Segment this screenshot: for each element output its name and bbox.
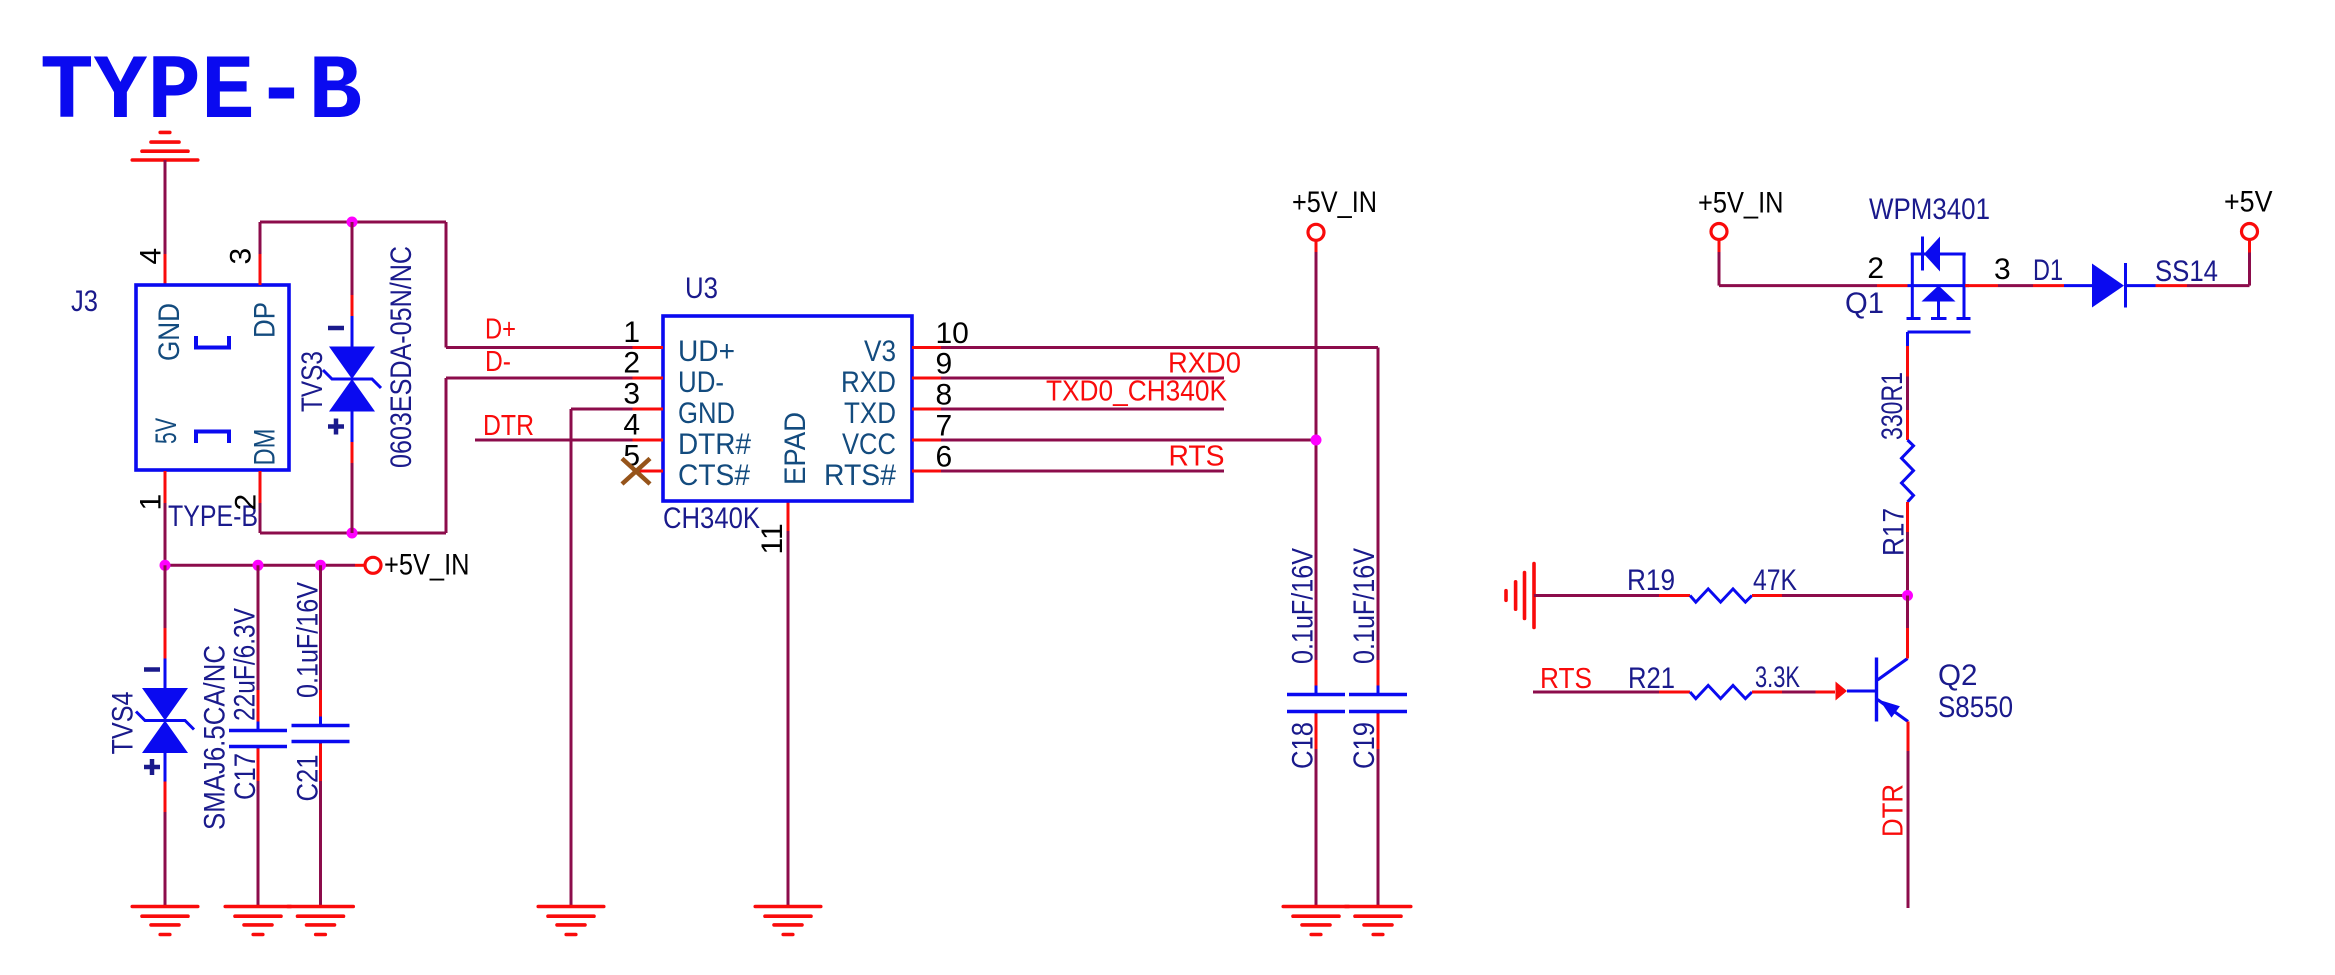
svg-text:DM: DM (249, 429, 282, 466)
diode TVS4 (136, 688, 194, 753)
svg-text:2: 2 (1867, 252, 1884, 285)
svg-text:3.3K: 3.3K (1755, 661, 1800, 694)
svg-text:UD+: UD+ (678, 335, 735, 368)
svg-text:TVS4: TVS4 (107, 692, 140, 755)
pin name 5V (150, 418, 183, 444)
svg-text:2: 2 (623, 347, 640, 380)
node junction TVS3 bottom (347, 528, 358, 539)
svg-text:1: 1 (135, 494, 168, 511)
wire C17 top (257, 565, 260, 728)
pin 3 stub U3 left (633, 408, 664, 411)
diode TVS3 (323, 347, 381, 412)
pin number 2 U3 (623, 347, 640, 380)
pin name VCC (842, 428, 896, 461)
svg-text:D1: D1 (2033, 254, 2063, 287)
pin number 10 U3 (936, 317, 969, 350)
wire TXD (941, 408, 1224, 411)
label 0.1uF/16V C18 (1287, 548, 1320, 664)
svg-text:DTR#: DTR# (678, 428, 751, 461)
wire V3 to C19 (941, 348, 1378, 661)
net label DTR (483, 410, 534, 442)
svg-text:4: 4 (135, 248, 168, 265)
wire R21 left (1533, 691, 1690, 694)
svg-text:3: 3 (225, 248, 258, 265)
pin number 6 U3 (936, 441, 953, 474)
wire Q1 source (1719, 239, 1908, 286)
pin name RTS# (824, 459, 896, 492)
svg-text:Q2: Q2 (1938, 659, 1978, 692)
net label D+ (485, 314, 516, 346)
label C21 (292, 755, 325, 802)
wire Q2 collector down (1907, 722, 1910, 909)
wire Q2 emitter up (1906, 596, 1909, 659)
capacitor C17 (229, 722, 287, 756)
svg-text:GND: GND (153, 303, 186, 361)
pin number 9 U3 (936, 348, 953, 381)
svg-text:+5V_IN: +5V_IN (384, 549, 470, 582)
wire pin3 vertical (259, 222, 262, 285)
svg-text:DTR: DTR (483, 410, 534, 442)
ground C19 (1345, 907, 1411, 935)
label 0.1uF/16V C19 (1348, 548, 1381, 664)
wire R17 bottom (1906, 502, 1909, 595)
wire R21 right (1752, 691, 1835, 694)
wire C18 top stub (1315, 660, 1318, 693)
svg-text:DTR: DTR (1878, 784, 1910, 837)
wire Q1 gate to R17 (1906, 346, 1909, 440)
svg-text:TYPE-B: TYPE-B (40, 40, 362, 145)
pin name V3 (864, 335, 896, 368)
label J3 (71, 285, 98, 318)
label SS14 (2155, 255, 2218, 288)
svg-text:R21: R21 (1628, 662, 1675, 695)
node junction rail-C21 (315, 560, 326, 571)
label TVS3 (296, 351, 329, 412)
wire D1 to +5V (2156, 239, 2250, 286)
pin name CTS# (678, 459, 750, 492)
label R19 (1627, 564, 1675, 597)
svg-text:330R1: 330R1 (1876, 372, 1909, 440)
wire R19 right (1752, 594, 1908, 597)
wire C19 bottom (1377, 714, 1380, 907)
TVS4 minus mark (144, 667, 160, 672)
svg-text:U3: U3 (685, 272, 718, 305)
pin number 4 (135, 248, 168, 265)
wire TVS3 top lead (351, 222, 354, 347)
ground TVS4 (132, 907, 198, 935)
svg-text:TVS3: TVS3 (296, 351, 329, 412)
pin name GND (153, 303, 186, 361)
resistor R21 (1690, 685, 1752, 698)
svg-text:7: 7 (936, 410, 953, 443)
TVS3 minus mark (328, 326, 344, 331)
ground R19 (1506, 564, 1534, 628)
label U3 (685, 272, 718, 305)
label S8550 (1938, 691, 2013, 724)
svg-text:47K: 47K (1753, 564, 1797, 597)
terminal +5V_IN left (365, 557, 381, 573)
svg-text:22uF/6.3V: 22uF/6.3V (229, 608, 262, 721)
label 0.1uF/16V C21 (292, 582, 325, 698)
pin number 1 U3 (623, 316, 640, 349)
label C19 (1348, 722, 1381, 769)
svg-text:TXD0_CH340K: TXD0_CH340K (1046, 376, 1228, 408)
wire bottom horizontal to D- corner (260, 378, 633, 533)
wire top horizontal to D+ corner (260, 222, 633, 348)
terminal +5V_IN Q1 (1711, 224, 1727, 240)
net label +5V_IN Q1 (1698, 187, 1784, 220)
wire TVS3 bottom lead (351, 411, 354, 533)
TVS4 plus mark (144, 759, 160, 775)
pin name EPAD (779, 412, 812, 485)
wire +5V_IN vertical (1315, 240, 1318, 661)
wire C19 top stub (1377, 660, 1380, 693)
ground C17 (225, 907, 291, 935)
wire C17 bottom (257, 749, 260, 907)
net label +5V_IN mid (1292, 186, 1377, 219)
ground C18 (1283, 907, 1349, 935)
pin number 7 U3 (936, 410, 953, 443)
pin name TXD (844, 397, 896, 430)
no-connect X pin5 (622, 459, 650, 485)
svg-text:CTS#: CTS# (678, 459, 750, 492)
shield bracket top (196, 336, 229, 348)
svg-text:VCC: VCC (842, 428, 896, 461)
pin 2 stub U3 left (633, 377, 664, 380)
capacitor C18 (1287, 686, 1345, 721)
ground U3 EPAD (755, 907, 821, 935)
label 330R1 (1876, 372, 1909, 440)
net label DTR rotated (1878, 784, 1910, 837)
svg-text:3: 3 (1994, 253, 2011, 286)
resistor R17 (1902, 440, 1914, 502)
label SMAJ6.5CA/NC (199, 645, 232, 830)
svg-text:RTS: RTS (1540, 663, 1592, 695)
svg-text:CH340K: CH340K (663, 502, 760, 535)
wire C21 bottom (319, 744, 322, 907)
wire TVS4 top lead (164, 565, 167, 688)
pin 6 stub U3 right (912, 470, 942, 473)
node junction rail-1 (160, 560, 171, 571)
pin number 2 Q1 (1867, 252, 1884, 285)
pin number 5 U3 (623, 440, 640, 473)
svg-text:0.1uF/16V: 0.1uF/16V (292, 582, 325, 698)
net label D- (485, 346, 511, 378)
svg-text:2: 2 (230, 494, 263, 511)
svg-text:V3: V3 (864, 335, 896, 368)
label 3.3K (1755, 661, 1800, 694)
svg-text:0.1uF/16V: 0.1uF/16V (1348, 548, 1381, 664)
wire +5V_IN rail (165, 564, 366, 567)
wire U3 EPAD (787, 502, 790, 907)
label WPM3401 (1869, 193, 1990, 226)
svg-text:C21: C21 (292, 755, 325, 802)
wire pin4 vertical (164, 160, 167, 285)
transistor Q2 (1847, 658, 1908, 722)
wire DTR (475, 439, 633, 442)
wire Q1 drain to D1 (1965, 284, 2064, 287)
pin number 1 (135, 494, 168, 511)
op-amp U3 box (663, 316, 912, 501)
capacitor C19 (1349, 686, 1407, 721)
TVS3 plus mark (328, 419, 344, 435)
label 0603ESDA-05N/NC (385, 246, 418, 468)
pin name GND U3 (678, 397, 735, 430)
pin 5 stub U3 left (633, 470, 664, 473)
pin 7 stub U3 right (912, 439, 942, 442)
pin number 3 U3 (623, 378, 640, 411)
label R21 (1628, 662, 1675, 695)
svg-text:WPM3401: WPM3401 (1869, 193, 1990, 226)
label C18 (1287, 722, 1320, 769)
label D1 (2033, 254, 2063, 287)
pin name UD- (678, 366, 724, 399)
pin 10 stub U3 right (912, 346, 942, 349)
label TYPE-B (168, 500, 258, 533)
svg-text:RXD: RXD (841, 366, 896, 399)
label 22uF/6.3V (229, 608, 262, 721)
pin name DP (249, 302, 282, 338)
svg-text:C17: C17 (229, 753, 262, 800)
label Q2 (1938, 659, 1978, 692)
svg-text:+5V: +5V (2224, 186, 2273, 219)
wire TVS4 bottom lead (164, 753, 167, 907)
diode D1 (2064, 263, 2156, 308)
node junction VCC (1311, 435, 1322, 446)
net label RTS (1169, 441, 1225, 473)
pin name RXD (841, 366, 896, 399)
svg-text:J3: J3 (71, 285, 98, 318)
label CH340K (663, 502, 760, 535)
wire pin1 vertical (164, 471, 167, 565)
ground GND top (J3 pin4) (132, 132, 198, 160)
svg-text:Q1: Q1 (1845, 287, 1884, 320)
connector J3 box (136, 285, 289, 470)
pin number 3 Q1 (1994, 253, 2011, 286)
resistor R19 (1690, 589, 1752, 602)
svg-text:4: 4 (623, 409, 640, 442)
svg-text:R19: R19 (1627, 564, 1675, 597)
wire C21 top (319, 565, 322, 723)
title TYPE-B (40, 40, 362, 145)
svg-text:RTS: RTS (1169, 441, 1225, 473)
svg-text:C19: C19 (1348, 722, 1381, 769)
svg-text:0603ESDA-05N/NC: 0603ESDA-05N/NC (385, 246, 418, 468)
svg-text:DP: DP (249, 302, 282, 338)
wire R19 left (1534, 594, 1690, 597)
pin number 3 (225, 248, 258, 265)
net label RTS left (1540, 663, 1592, 695)
svg-text:S8550: S8550 (1938, 691, 2013, 724)
svg-text:9: 9 (936, 348, 953, 381)
pin number 11 (756, 523, 789, 554)
wire RTS (941, 470, 1224, 473)
ground U3 GND (538, 907, 604, 935)
svg-text:R17: R17 (1878, 508, 1911, 556)
terminal +5V (2242, 224, 2258, 240)
pin 8 stub U3 right (912, 408, 942, 411)
label 47K (1753, 564, 1797, 597)
arrow into Q2 base (1836, 682, 1848, 701)
net label RXD0 (1168, 348, 1241, 380)
svg-text:UD-: UD- (678, 366, 724, 399)
pin number 2 (230, 494, 263, 511)
svg-text:11: 11 (756, 523, 789, 554)
svg-text:3: 3 (623, 378, 640, 411)
node junction rail-C17 (253, 560, 264, 571)
net label TXD0_CH340K (1046, 376, 1228, 408)
svg-text:GND: GND (678, 397, 735, 430)
terminal +5V_IN mid (1308, 224, 1324, 240)
svg-text:EPAD: EPAD (779, 412, 812, 485)
wire RXD (941, 377, 1224, 380)
svg-text:5V: 5V (150, 418, 183, 444)
shield bracket bottom (196, 432, 229, 444)
label C17 (229, 753, 262, 800)
svg-text:10: 10 (936, 317, 969, 350)
net label +5V (2224, 186, 2273, 219)
wire U3 GND pin3 (571, 409, 633, 907)
label R17 (1878, 508, 1911, 556)
label Q1 (1845, 287, 1884, 320)
wire VCC (941, 439, 1316, 442)
svg-text:D+: D+ (485, 314, 516, 346)
pin 1 stub U3 left (633, 346, 664, 349)
capacitor C21 (292, 717, 350, 751)
net label +5V_IN left (384, 549, 470, 582)
pin name DM (249, 429, 282, 466)
svg-text:SMAJ6.5CA/NC: SMAJ6.5CA/NC (199, 645, 232, 830)
node junction TVS3 top (347, 217, 358, 228)
svg-text:C18: C18 (1287, 722, 1320, 769)
wire C18 bottom (1315, 714, 1318, 907)
node junction R19-R17-Q2 (1902, 590, 1913, 601)
svg-text:0.1uF/16V: 0.1uF/16V (1287, 548, 1320, 664)
pin number 4 U3 (623, 409, 640, 442)
label TVS4 (107, 692, 140, 755)
pin name UD+ (678, 335, 735, 368)
svg-text:RTS#: RTS# (824, 459, 896, 492)
svg-text:6: 6 (936, 441, 953, 474)
svg-text:8: 8 (936, 379, 953, 412)
ground C21 (288, 907, 354, 935)
pin number 8 U3 (936, 379, 953, 412)
svg-text:1: 1 (623, 316, 640, 349)
pin 9 stub U3 right (912, 377, 942, 380)
pin 4 stub U3 left (633, 439, 664, 442)
svg-text:D-: D- (485, 346, 511, 378)
wire pin2 vertical (259, 471, 262, 533)
transistor Q1 (1907, 237, 1971, 347)
pin name DTR# (678, 428, 751, 461)
svg-text:+5V_IN: +5V_IN (1292, 186, 1377, 219)
svg-text:TXD: TXD (844, 397, 896, 430)
svg-text:+5V_IN: +5V_IN (1698, 187, 1784, 220)
svg-text:SS14: SS14 (2155, 255, 2218, 288)
